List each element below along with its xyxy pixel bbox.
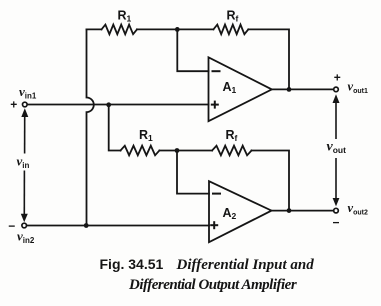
resistor R1 (top) — [102, 25, 138, 35]
wire — [137, 28, 213, 30]
wire vout arrow lower — [333, 158, 340, 206]
op-amp A2 — [209, 181, 272, 242]
node junction (vin1 node) — [106, 102, 111, 107]
svg-text:Differential Input and: Differential Input and — [176, 257, 315, 273]
svg-text:Differential Output Amplifier: Differential Output Amplifier — [128, 277, 297, 293]
node junction (vout2 node) — [287, 208, 292, 213]
wire vout arrow upper — [333, 94, 340, 139]
wire — [177, 151, 209, 194]
wire — [272, 210, 334, 212]
wire — [252, 151, 290, 211]
wire — [177, 29, 208, 71]
wire — [248, 29, 289, 89]
svg-text:Fig. 34.51: Fig. 34.51 — [100, 256, 164, 272]
wire — [159, 150, 212, 152]
node junction (R1/Rf bottom) — [175, 148, 180, 153]
svg-text:−: − — [332, 215, 339, 229]
resistor R1 (bottom) — [121, 146, 160, 156]
wire vin arrow upper — [21, 108, 28, 153]
wire — [27, 104, 208, 106]
node junction (R1/Rf top) — [175, 27, 180, 32]
terminal vout1 — [334, 87, 339, 92]
terminal vout2 — [334, 208, 339, 213]
wire — [26, 225, 209, 227]
node junction (vin2 rail) — [84, 223, 89, 228]
wire vin arrow lower — [21, 171, 28, 223]
svg-text:+: + — [10, 97, 17, 111]
resistor Rf (bottom) — [212, 146, 251, 156]
node junction (vout1 node) — [287, 87, 292, 92]
wire — [109, 105, 121, 151]
op-amp A1 — [209, 57, 272, 121]
wire — [87, 28, 102, 30]
terminal vin2 — [22, 223, 27, 228]
wire — [272, 88, 334, 90]
svg-text:+: + — [334, 70, 341, 84]
resistor Rf (top) — [213, 25, 248, 35]
terminal vin1 — [23, 102, 28, 107]
svg-text:−: − — [8, 219, 15, 233]
wire — [87, 29, 94, 225]
